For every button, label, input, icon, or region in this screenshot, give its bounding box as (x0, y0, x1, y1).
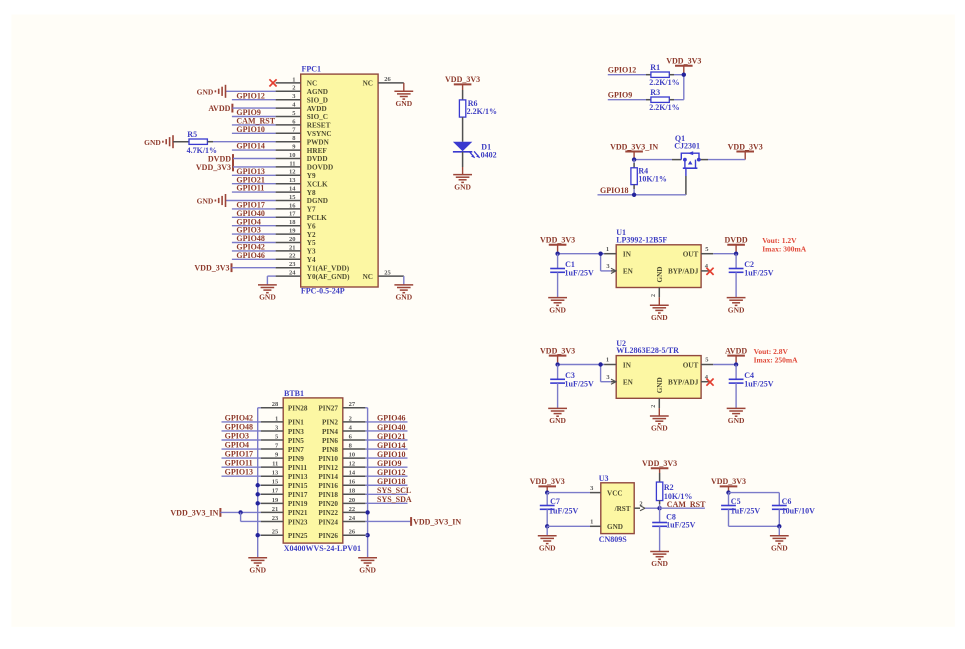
svg-text:11: 11 (289, 160, 295, 167)
svg-text:Imax: 250mA: Imax: 250mA (754, 355, 799, 364)
svg-text:1uF/25V: 1uF/25V (744, 269, 774, 278)
svg-text:GPIO42: GPIO42 (225, 413, 253, 422)
svg-text:IN: IN (623, 251, 632, 259)
svg-text:12: 12 (289, 169, 296, 176)
svg-text:GPIO46: GPIO46 (377, 414, 405, 423)
svg-text:GPIO40: GPIO40 (377, 423, 405, 432)
svg-text:Y2: Y2 (307, 231, 316, 239)
svg-text:PIN4: PIN4 (322, 428, 338, 436)
svg-text:PIN16: PIN16 (318, 482, 338, 490)
svg-text:1uF/25V: 1uF/25V (744, 379, 774, 388)
svg-text:PIN17: PIN17 (288, 491, 308, 499)
svg-text:2: 2 (651, 294, 657, 297)
svg-text:NC: NC (307, 80, 317, 88)
svg-text:1: 1 (275, 415, 278, 422)
svg-text:2.2K/1%: 2.2K/1% (649, 78, 679, 87)
svg-text:GND: GND (395, 293, 412, 302)
svg-text:AGND: AGND (307, 88, 328, 96)
svg-text:24: 24 (289, 270, 296, 277)
svg-text:PIN25: PIN25 (288, 532, 308, 540)
svg-text:GND: GND (771, 544, 788, 553)
svg-text:GPIO10: GPIO10 (236, 125, 264, 134)
svg-text:GND: GND (197, 88, 214, 97)
svg-text:GPIO12: GPIO12 (236, 91, 264, 100)
svg-text:GPIO4: GPIO4 (225, 440, 249, 449)
svg-text:FPC-0.5-24P: FPC-0.5-24P (301, 287, 345, 296)
svg-text:PIN14: PIN14 (318, 473, 338, 481)
svg-text:CJ2301: CJ2301 (674, 142, 700, 151)
svg-text:R2: R2 (664, 483, 674, 492)
svg-text:DOVDD: DOVDD (307, 164, 333, 172)
svg-text:11: 11 (272, 461, 278, 468)
svg-text:PIN26: PIN26 (318, 532, 338, 540)
svg-text:SYS_SDA: SYS_SDA (377, 495, 412, 504)
svg-text:21: 21 (289, 244, 296, 251)
svg-text:Y4: Y4 (307, 256, 316, 264)
svg-text:PIN18: PIN18 (318, 491, 338, 499)
svg-text:14: 14 (289, 186, 296, 193)
svg-text:XCLK: XCLK (307, 180, 328, 188)
svg-text:DGND: DGND (307, 197, 328, 205)
svg-text:VDD_3V3: VDD_3V3 (196, 163, 231, 172)
svg-text:GND: GND (395, 99, 412, 108)
svg-text:GPIO3: GPIO3 (225, 431, 249, 440)
svg-text:/RST: /RST (614, 505, 631, 513)
svg-text:10K/1%: 10K/1% (638, 175, 666, 184)
svg-text:16: 16 (289, 202, 296, 209)
svg-text:PIN2: PIN2 (322, 419, 338, 427)
svg-text:GND: GND (651, 559, 668, 568)
svg-text:VCC: VCC (607, 489, 623, 497)
svg-text:GPIO21: GPIO21 (377, 432, 405, 441)
svg-text:GND: GND (656, 267, 664, 283)
svg-text:GND: GND (651, 313, 668, 322)
svg-text:EN: EN (623, 379, 634, 387)
svg-text:PIN24: PIN24 (318, 518, 338, 526)
svg-text:15: 15 (289, 194, 296, 201)
svg-text:GPIO11: GPIO11 (236, 184, 264, 193)
svg-text:2: 2 (639, 501, 642, 508)
svg-text:C7: C7 (550, 497, 560, 506)
svg-text:GND: GND (728, 416, 745, 425)
svg-text:FPC1: FPC1 (302, 64, 322, 73)
svg-text:VDD_3V3: VDD_3V3 (728, 142, 763, 151)
svg-text:AVDD: AVDD (208, 104, 230, 113)
svg-text:GND: GND (197, 197, 214, 206)
svg-text:20: 20 (349, 497, 356, 504)
svg-text:C6: C6 (782, 497, 792, 506)
svg-text:OUT: OUT (683, 251, 699, 259)
svg-text:10K/1%: 10K/1% (664, 492, 692, 501)
svg-text:BTB1: BTB1 (284, 389, 304, 398)
svg-text:2: 2 (292, 85, 295, 92)
svg-text:PIN19: PIN19 (288, 500, 308, 508)
svg-text:21: 21 (272, 506, 279, 513)
svg-text:PIN5: PIN5 (288, 437, 304, 445)
svg-text:PIN21: PIN21 (288, 509, 308, 517)
svg-text:PIN27: PIN27 (318, 405, 338, 413)
svg-text:10uF/10V: 10uF/10V (782, 507, 816, 516)
svg-text:PIN6: PIN6 (322, 437, 338, 445)
svg-text:CN809S: CN809S (599, 535, 628, 544)
svg-text:X0400WVS-24-LPV01: X0400WVS-24-LPV01 (284, 544, 361, 553)
svg-text:Y6: Y6 (307, 222, 316, 230)
svg-text:Y7: Y7 (307, 206, 316, 214)
svg-text:OUT: OUT (683, 361, 699, 369)
svg-text:VDD_3V3: VDD_3V3 (642, 459, 677, 468)
svg-text:VDD_3V3_IN: VDD_3V3_IN (170, 508, 218, 517)
svg-text:VDD_3V3: VDD_3V3 (194, 264, 229, 273)
svg-text:25: 25 (272, 529, 279, 536)
svg-text:PIN13: PIN13 (288, 473, 308, 481)
svg-text:VDD_3V3_IN: VDD_3V3_IN (610, 142, 658, 151)
svg-text:GPIO14: GPIO14 (236, 142, 264, 151)
svg-text:PIN11: PIN11 (288, 464, 308, 472)
svg-text:16: 16 (349, 479, 356, 486)
svg-text:SIO_C: SIO_C (307, 113, 328, 121)
svg-text:GPIO9: GPIO9 (608, 91, 632, 100)
svg-text:Y9: Y9 (307, 172, 316, 180)
svg-text:23: 23 (289, 261, 296, 268)
svg-text:1: 1 (606, 357, 609, 364)
svg-text:13: 13 (272, 470, 279, 477)
svg-text:RESET: RESET (307, 122, 331, 130)
svg-text:1: 1 (606, 246, 609, 253)
svg-text:BYP/ADJ: BYP/ADJ (668, 379, 699, 387)
svg-text:2.2K/1%: 2.2K/1% (649, 103, 679, 112)
svg-text:PIN28: PIN28 (288, 405, 308, 413)
svg-text:24: 24 (349, 515, 356, 522)
svg-text:WL2863E28-5/TR: WL2863E28-5/TR (616, 346, 679, 355)
svg-text:VDD_3V3_IN: VDD_3V3_IN (413, 517, 461, 526)
svg-text:PIN12: PIN12 (318, 464, 338, 472)
svg-text:GND: GND (249, 566, 266, 575)
svg-text:GND: GND (656, 377, 664, 393)
svg-text:0402: 0402 (481, 150, 497, 159)
svg-text:SIO_D: SIO_D (307, 96, 328, 104)
svg-text:28: 28 (272, 401, 279, 408)
svg-text:PIN7: PIN7 (288, 446, 304, 454)
svg-text:19: 19 (289, 228, 296, 235)
svg-text:GND: GND (651, 424, 668, 433)
svg-text:R3: R3 (650, 88, 660, 97)
svg-text:PIN23: PIN23 (288, 518, 308, 526)
svg-text:PIN10: PIN10 (318, 455, 338, 463)
svg-text:10: 10 (349, 452, 356, 459)
svg-text:R1: R1 (650, 63, 660, 72)
svg-text:GPIO46: GPIO46 (236, 251, 264, 260)
svg-text:1uF/25V: 1uF/25V (666, 521, 696, 530)
svg-text:VSYNC: VSYNC (307, 130, 332, 138)
svg-text:Y1(AF_VDD): Y1(AF_VDD) (307, 264, 350, 272)
svg-text:U3: U3 (599, 474, 609, 483)
svg-text:GPIO48: GPIO48 (225, 422, 253, 431)
svg-text:GPIO10: GPIO10 (377, 450, 405, 459)
svg-text:BYP/ADJ: BYP/ADJ (668, 268, 699, 276)
svg-text:AVDD: AVDD (307, 105, 327, 113)
svg-text:22: 22 (289, 253, 296, 260)
svg-text:IN: IN (623, 361, 632, 369)
svg-text:GND: GND (607, 523, 623, 531)
svg-text:20: 20 (289, 236, 296, 243)
svg-text:PIN8: PIN8 (322, 446, 338, 454)
svg-text:GPIO12: GPIO12 (608, 66, 636, 75)
svg-text:26: 26 (384, 76, 391, 83)
svg-text:GND: GND (259, 293, 276, 302)
svg-text:18: 18 (349, 488, 356, 495)
svg-text:VDD_3V3: VDD_3V3 (666, 57, 701, 66)
svg-text:1: 1 (292, 76, 295, 83)
svg-text:GPIO12: GPIO12 (377, 468, 405, 477)
svg-text:PIN1: PIN1 (288, 419, 304, 427)
svg-text:Imax: 300mA: Imax: 300mA (762, 245, 807, 254)
svg-text:17: 17 (289, 211, 296, 218)
svg-text:SYS_SCL: SYS_SCL (377, 486, 411, 495)
svg-text:VDD_3V3: VDD_3V3 (540, 236, 575, 245)
svg-text:22: 22 (349, 506, 356, 513)
svg-text:GND: GND (454, 182, 471, 191)
svg-text:17: 17 (272, 488, 279, 495)
svg-text:GND: GND (359, 566, 376, 575)
svg-text:GPIO11: GPIO11 (225, 459, 253, 468)
svg-text:Y5: Y5 (307, 239, 316, 247)
svg-text:GND: GND (144, 138, 161, 147)
svg-text:C5: C5 (731, 497, 741, 506)
svg-text:VDD_3V3: VDD_3V3 (540, 346, 575, 355)
svg-text:15: 15 (272, 479, 279, 486)
svg-text:PIN20: PIN20 (318, 500, 338, 508)
svg-text:PWDN: PWDN (307, 138, 330, 146)
svg-text:18: 18 (289, 219, 296, 226)
svg-text:19: 19 (272, 497, 279, 504)
svg-text:GPIO13: GPIO13 (225, 468, 253, 477)
svg-text:27: 27 (349, 401, 356, 408)
svg-text:Y8: Y8 (307, 189, 316, 197)
svg-text:2: 2 (651, 405, 657, 408)
svg-text:LP3992-12B5F: LP3992-12B5F (616, 235, 667, 244)
svg-text:2.2K/1%: 2.2K/1% (467, 107, 497, 116)
svg-text:PIN15: PIN15 (288, 482, 308, 490)
svg-text:10: 10 (289, 152, 296, 159)
svg-text:PCLK: PCLK (307, 214, 327, 222)
svg-text:VDD_3V3: VDD_3V3 (530, 477, 565, 486)
svg-text:GPIO17: GPIO17 (225, 450, 253, 459)
svg-text:GND: GND (549, 305, 566, 314)
svg-text:PIN3: PIN3 (288, 428, 304, 436)
svg-text:DVDD: DVDD (307, 155, 328, 163)
svg-text:Y3: Y3 (307, 248, 316, 256)
svg-text:GND: GND (539, 544, 556, 553)
svg-text:14: 14 (349, 470, 356, 477)
svg-text:2: 2 (349, 415, 352, 422)
svg-text:PIN22: PIN22 (318, 509, 338, 517)
svg-text:PIN9: PIN9 (288, 455, 304, 463)
svg-text:23: 23 (272, 515, 279, 522)
svg-text:VDD_3V3: VDD_3V3 (445, 75, 480, 84)
svg-text:EN: EN (623, 268, 634, 276)
svg-text:AVDD: AVDD (725, 346, 747, 355)
svg-text:1: 1 (590, 519, 593, 526)
svg-text:25: 25 (384, 269, 391, 276)
svg-text:1uF/25V: 1uF/25V (565, 269, 595, 278)
svg-text:GND: GND (549, 416, 566, 425)
svg-text:NC: NC (363, 273, 373, 281)
svg-text:GND: GND (728, 305, 745, 314)
svg-text:26: 26 (349, 529, 356, 536)
svg-text:NC: NC (363, 80, 373, 88)
svg-text:1uF/25V: 1uF/25V (565, 379, 595, 388)
svg-text:DVDD: DVDD (725, 236, 748, 245)
svg-text:GPIO14: GPIO14 (377, 441, 405, 450)
svg-text:Y0(AF_GND): Y0(AF_GND) (307, 273, 350, 281)
svg-text:1uF/25V: 1uF/25V (549, 507, 579, 516)
svg-text:R5: R5 (187, 130, 197, 139)
svg-text:GPIO18: GPIO18 (600, 186, 628, 195)
svg-text:12: 12 (349, 461, 356, 468)
svg-text:VDD_3V3: VDD_3V3 (711, 477, 746, 486)
svg-text:13: 13 (289, 177, 296, 184)
svg-text:GPIO9: GPIO9 (377, 459, 401, 468)
svg-text:GPIO18: GPIO18 (377, 477, 405, 486)
svg-text:HREF: HREF (307, 147, 328, 155)
svg-text:1uF/25V: 1uF/25V (731, 507, 761, 516)
